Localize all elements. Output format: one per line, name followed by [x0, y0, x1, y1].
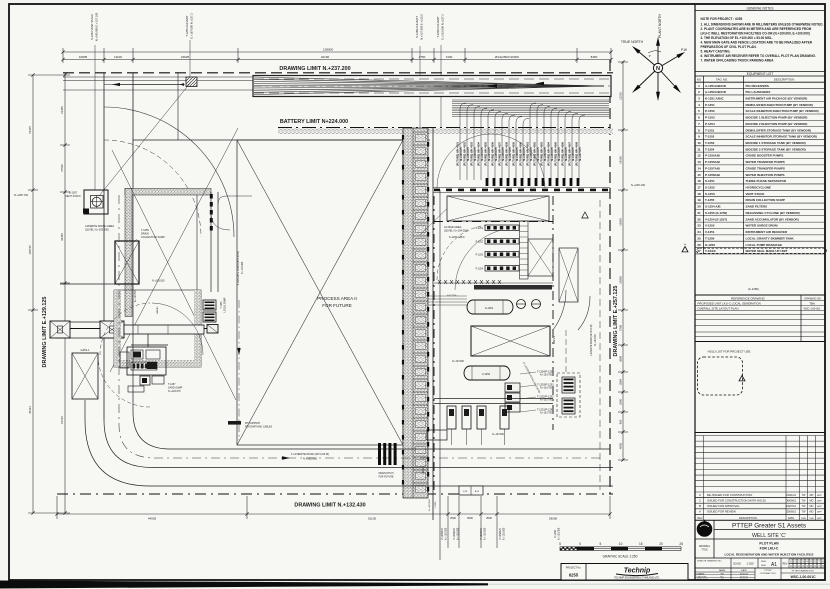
svg-text:N.+237.500 E.+215.0: N.+237.500 E.+215.0 — [420, 14, 424, 40]
svg-text:31/01/11: 31/01/11 — [740, 579, 749, 581]
svg-text:T-1259: T-1259 — [221, 301, 223, 309]
svg-text:(FUTURE) WK-4555: (FUTURE) WK-4555 — [483, 141, 487, 165]
svg-text:24: 24 — [697, 230, 701, 234]
svg-text:45113: 45113 — [28, 406, 32, 414]
svg-text:S-1253 VENT STACK: S-1253 VENT STACK — [90, 14, 94, 40]
svg-text:(LEVEL N.+103.000): (LEVEL N.+103.000) — [85, 228, 109, 232]
svg-text:PTTEP DRAWING NO.: PTTEP DRAWING NO. — [792, 570, 815, 573]
svg-text:N.+103.000: N.+103.000 — [429, 499, 431, 511]
svg-text:N.+239.975: N.+239.975 — [522, 147, 526, 161]
svg-text:P-1252: P-1252 — [705, 109, 715, 113]
svg-text:P-1251: P-1251 — [705, 103, 715, 107]
svg-text:S-1251: S-1251 — [705, 179, 715, 183]
svg-text:P-1255A/B: P-1255A/B — [705, 154, 721, 158]
svg-text:CON: CON — [463, 491, 468, 493]
svg-text:PTTEP Greater S1 Assets: PTTEP Greater S1 Assets — [732, 523, 806, 530]
svg-text:(FUTURE) WK-4551: (FUTURE) WK-4551 — [455, 141, 459, 165]
svg-text:N.+235.975: N.+235.975 — [564, 147, 568, 161]
svg-text:WATER TRANSFER PUMPS: WATER TRANSFER PUMPS — [746, 160, 785, 164]
svg-text:T-1255 CULVERT: T-1255 CULVERT — [185, 15, 189, 37]
svg-text:P-1254: P-1254 — [705, 122, 715, 126]
svg-text:COLLECTION SUMP: COLLECTION SUMP — [141, 236, 165, 239]
svg-text:BIOCIDE 1 STORAGE TANK (BY VEN: BIOCIDE 1 STORAGE TANK (BY VENDOR) — [746, 141, 806, 145]
svg-text:T-1253: T-1253 — [705, 141, 715, 145]
svg-text:13235: 13235 — [619, 92, 623, 100]
svg-text:29000: 29000 — [549, 517, 558, 521]
svg-text:17540: 17540 — [60, 164, 64, 172]
svg-text:N.+237.975: N.+237.975 — [578, 147, 582, 161]
svg-text:T-1252/P-1252: T-1252/P-1252 — [537, 396, 554, 399]
svg-text:DRN: DRN — [801, 518, 806, 520]
svg-text:N: N — [656, 66, 660, 72]
svg-text:B: B — [699, 504, 701, 508]
svg-text:21450: 21450 — [60, 106, 64, 114]
svg-text:VENT STACK: VENT STACK — [65, 195, 81, 198]
svg-text:REFERENCE DRAWING: REFERENCE DRAWING — [731, 296, 765, 300]
svg-text:APP: APP — [817, 494, 822, 497]
svg-text:128000: 128000 — [323, 48, 333, 52]
svg-text:06/09/10: 06/09/10 — [786, 499, 797, 503]
svg-text:O-1252: O-1252 — [705, 243, 715, 247]
svg-text:REV: REV — [698, 517, 703, 520]
svg-text:ISSUED FOR CONSTRUCTION (WITH: ISSUED FOR CONSTRUCTION (WITH HOLD) — [707, 499, 766, 503]
svg-text:33450: 33450 — [60, 233, 64, 241]
svg-text:N.+103.000: N.+103.000 — [152, 280, 165, 283]
svg-text:DRAWING LIMIT N.+132.430: DRAWING LIMIT N.+132.430 — [294, 503, 365, 509]
svg-text:P-1252: P-1252 — [476, 242, 484, 244]
svg-text:25/06/10: 25/06/10 — [786, 510, 797, 514]
svg-text:CONTRACT NO.: CONTRACT NO. — [760, 572, 777, 575]
svg-text:DRAWING: DRAWING — [699, 545, 710, 548]
svg-text:CRUDE BOOSTER PUMPS: CRUDE BOOSTER PUMPS — [746, 154, 784, 158]
svg-text:10: 10 — [697, 141, 701, 145]
svg-text:HOLD LIST FOR PROJECT USE: HOLD LIST FOR PROJECT USE — [708, 350, 751, 354]
svg-text:105745: 105745 — [28, 245, 32, 255]
svg-text:DRAWN: DRAWN — [697, 573, 705, 576]
svg-text:25: 25 — [679, 542, 683, 546]
svg-text:REV: REV — [783, 563, 788, 566]
svg-text:WATER SEAL MAKE UP UNIT: WATER SEAL MAKE UP UNIT — [746, 249, 788, 253]
svg-text:K-1251 A/B/C: K-1251 A/B/C — [705, 96, 725, 100]
svg-text:N.+103.795: N.+103.795 — [540, 388, 553, 390]
svg-text:5: 5 — [600, 542, 602, 546]
svg-text:N.+103.500: N.+103.500 — [503, 527, 506, 540]
svg-text:14100: 14100 — [619, 156, 623, 164]
svg-text:10000: 10000 — [619, 276, 623, 284]
svg-text:RE-ISSUED FOR CONSTRUCTION: RE-ISSUED FOR CONSTRUCTION — [707, 493, 752, 497]
svg-text:42160: 42160 — [321, 55, 330, 59]
svg-text:N.+170.000: N.+170.000 — [241, 261, 244, 274]
svg-text:DESCRIPTION: DESCRIPTION — [739, 516, 757, 520]
svg-text:S-1254 A/B: S-1254 A/B — [705, 205, 721, 209]
svg-text:20: 20 — [697, 205, 701, 209]
svg-text:20: 20 — [659, 542, 663, 546]
svg-text:TAG NO.: TAG NO. — [716, 78, 728, 82]
svg-text:6000: 6000 — [467, 516, 473, 520]
svg-text:T-1259 CULVERT: T-1259 CULVERT — [436, 16, 440, 38]
svg-text:OVERALL SITE LAYOUT PLAN: OVERALL SITE LAYOUT PLAN — [698, 307, 739, 311]
svg-text:BIOCIDE 2 INJECTION PUMP (BY V: BIOCIDE 2 INJECTION PUMP (BY VENDOR) — [746, 122, 808, 126]
svg-text:3300: 3300 — [619, 399, 623, 405]
svg-text:N.+235.975: N.+235.975 — [494, 147, 498, 161]
svg-text:9°: 9° — [649, 54, 651, 58]
svg-text:(FUTURE) WK-4563: (FUTURE) WK-4563 — [539, 141, 543, 165]
svg-text:6255: 6255 — [569, 573, 579, 578]
svg-text:P-1253: P-1253 — [705, 116, 715, 120]
svg-text:P-1254: P-1254 — [476, 269, 484, 271]
svg-text:T-1255: T-1255 — [435, 501, 437, 509]
svg-text:ISSUED FOR REVIEW: ISSUED FOR REVIEW — [707, 510, 736, 514]
svg-text:11100: 11100 — [114, 55, 122, 59]
svg-text:N.+103.795: N.+103.795 — [540, 400, 553, 402]
svg-text:V-1254 (S-1257): V-1254 (S-1257) — [705, 217, 727, 221]
svg-text:WATER INJECTION PUMPS: WATER INJECTION PUMPS — [746, 173, 785, 177]
svg-text:DEMULSIFIER INJECTION PUMP (BY: DEMULSIFIER INJECTION PUMP (BY VENDOR) — [746, 103, 813, 107]
svg-text:10: 10 — [619, 542, 623, 546]
svg-text:21: 21 — [697, 211, 701, 215]
svg-text:MO: MO — [810, 500, 814, 503]
svg-text:SCALE INHIBITOR INJECTION PUMP: SCALE INHIBITOR INJECTION PUMP (BY VENDO… — [746, 109, 819, 113]
svg-text:BIOCIDE 1 INJECTION PUMP (BY V: BIOCIDE 1 INJECTION PUMP (BY VENDOR) — [746, 116, 808, 120]
svg-text:INSTRUMENT AIR RECEIVER: INSTRUMENT AIR RECEIVER — [746, 230, 789, 234]
svg-text:LOCAL GRAVITY SKIMMER TANK: LOCAL GRAVITY SKIMMER TANK — [746, 236, 795, 240]
svg-text:P-1251: P-1251 — [476, 228, 484, 230]
svg-text:APP: APP — [817, 517, 822, 520]
svg-text:¢ LATERITE ROAD (W=4.00 M): ¢ LATERITE ROAD (W=4.00 M) — [291, 452, 329, 456]
svg-text:DRAIN COLLECTION SUMP: DRAIN COLLECTION SUMP — [746, 198, 785, 202]
svg-text:15: 15 — [639, 542, 643, 546]
svg-text:DRAWING LIMIT E.+129.125: DRAWING LIMIT E.+129.125 — [42, 297, 48, 368]
svg-text:T-1254/P-1254: T-1254/P-1254 — [537, 371, 554, 374]
svg-text:11: 11 — [697, 147, 701, 151]
svg-text:N.+233.975: N.+233.975 — [550, 147, 554, 161]
svg-text:V-1251: V-1251 — [705, 230, 715, 234]
svg-text:(FUTURE) WK-4552: (FUTURE) WK-4552 — [462, 141, 466, 165]
svg-text:19: 19 — [697, 198, 701, 202]
svg-text:A-1252A/B/C/D: A-1252A/B/C/D — [705, 90, 727, 94]
svg-text:FOR FUTURE: FOR FUTURE — [379, 476, 394, 478]
svg-text:25: 25 — [697, 236, 701, 240]
svg-text:S-1252: S-1252 — [705, 186, 715, 190]
svg-text:FOR FUTURE: FOR FUTURE — [322, 303, 352, 308]
svg-text:LATERITE ROAD (W=4.00 M): LATERITE ROAD (W=4.00 M) — [590, 324, 593, 355]
svg-text:¢ LATERITE ROAD (W=4.00 M): ¢ LATERITE ROAD (W=4.00 M) — [237, 251, 240, 285]
svg-text:SIZE: SIZE — [761, 565, 766, 567]
svg-text:PLANT NORTH: PLANT NORTH — [658, 14, 662, 38]
svg-text:(FUTURE) WK-4568: (FUTURE) WK-4568 — [574, 141, 578, 165]
svg-text:AREA?: AREA? — [156, 306, 159, 314]
svg-text:DWG: DWG — [761, 561, 767, 563]
svg-text:P-1253: P-1253 — [476, 255, 484, 257]
svg-text:SCALE INHIBITOR STORAGE TANK (: SCALE INHIBITOR STORAGE TANK (BY VENDOR) — [746, 135, 817, 139]
svg-text:K-1251 A/B/C: K-1251 A/B/C — [449, 235, 465, 239]
svg-text:67210: 67210 — [60, 416, 64, 424]
svg-text:(FUTURE) WK-4559: (FUTURE) WK-4559 — [511, 141, 515, 165]
svg-text:51105: 51105 — [368, 517, 376, 521]
svg-text:N.+103.500: N.+103.500 — [445, 527, 448, 540]
svg-text:P-1258A/B: P-1258A/B — [705, 173, 721, 177]
svg-text:APP: APP — [817, 500, 822, 503]
svg-text:S-1253: S-1253 — [705, 192, 715, 196]
svg-text:N.+103.500: N.+103.500 — [457, 527, 460, 540]
svg-text:15: 15 — [697, 173, 701, 177]
svg-text:APP: APP — [817, 511, 822, 514]
svg-text:7200: 7200 — [446, 55, 453, 59]
svg-text:N.+238.975: N.+238.975 — [515, 147, 519, 161]
svg-text:PROPOSED UNIT LKU-C LOCAL GENE: PROPOSED UNIT LKU-C LOCAL GENERATION — [698, 302, 761, 306]
svg-text:10000: 10000 — [619, 218, 623, 226]
svg-text:5: 5 — [559, 542, 561, 546]
svg-text:Technip: Technip — [624, 568, 651, 575]
svg-text:(FUTURE) WK-4566: (FUTURE) WK-4566 — [560, 141, 564, 165]
svg-text:N.+236.975: N.+236.975 — [501, 147, 505, 161]
svg-text:12: 12 — [697, 154, 701, 158]
svg-text:T-XXXX: T-XXXX — [705, 249, 716, 253]
svg-text:BATTERY LIMIT N+224.000: BATTERY LIMIT N+224.000 — [280, 119, 348, 125]
svg-text:0: 0 — [579, 542, 581, 546]
svg-text:23: 23 — [697, 224, 701, 228]
svg-text:TITLE: TITLE — [701, 549, 708, 551]
svg-text:NOTE FOR PROJECT : 6255: NOTE FOR PROJECT : 6255 — [701, 17, 743, 21]
svg-text:(FUTURE) WK-4553: (FUTURE) WK-4553 — [469, 141, 473, 165]
svg-text:DRAWING LIMIT E.+257.125: DRAWING LIMIT E.+257.125 — [613, 286, 619, 357]
svg-text:BOX: BOX — [475, 491, 480, 493]
svg-text:DATE: DATE — [788, 517, 795, 520]
svg-text:A1: A1 — [771, 562, 777, 568]
svg-text:N.+103.000: N.+103.000 — [558, 527, 561, 540]
svg-text:PLOT PLAN: PLOT PLAN — [759, 542, 779, 546]
svg-text:1. ALL DIMENSIONS SHOWN ARE IN: 1. ALL DIMENSIONS SHOWN ARE IN MILLIMETE… — [701, 22, 824, 26]
svg-text:N.+232.975: N.+232.975 — [543, 147, 547, 161]
svg-text:N.+231.975: N.+231.975 — [466, 147, 470, 161]
svg-text:A: A — [699, 510, 701, 514]
svg-text:PREPARATION OF CIVIL PLOT PLAN: PREPARATION OF CIVIL PLOT PLAN. — [701, 45, 757, 49]
svg-text:14: 14 — [697, 166, 701, 170]
svg-text:N.+230.975: N.+230.975 — [459, 147, 463, 161]
svg-text:VENDOR DRAWING NO.: VENDOR DRAWING NO. — [697, 560, 722, 563]
svg-text:N.+234.975: N.+234.975 — [487, 147, 491, 161]
svg-text:ISSUED FOR APPROVAL: ISSUED FOR APPROVAL — [707, 504, 740, 508]
svg-text:19/07/10: 19/07/10 — [786, 504, 797, 508]
svg-text:74475: 74475 — [28, 126, 32, 134]
svg-text:WATER SURGE DRUM: WATER SURGE DRUM — [746, 224, 778, 228]
svg-text:V-1252: V-1252 — [482, 372, 491, 376]
svg-text:S-1255 (S-1256): S-1255 (S-1256) — [705, 211, 727, 215]
svg-text:S-1259 CULVERT: S-1259 CULVERT — [415, 16, 419, 38]
svg-text:31/01/11: 31/01/11 — [786, 493, 796, 497]
svg-text:FOR EARTHING CABLES: FOR EARTHING CABLES — [245, 425, 272, 428]
svg-text:7. WATER OFFLOADING TRUCK PARK: 7. WATER OFFLOADING TRUCK PARKING AREA — [701, 59, 775, 63]
svg-text:22: 22 — [697, 217, 701, 221]
svg-text:(FUTURE) WK-4564: (FUTURE) WK-4564 — [546, 141, 550, 165]
svg-text:N.+234.975: N.+234.975 — [557, 147, 561, 161]
svg-text:2500: 2500 — [450, 516, 456, 520]
svg-text:N.+237.975: N.+237.975 — [508, 147, 512, 161]
svg-text:GATE 1: GATE 1 — [80, 348, 90, 352]
svg-text:GATE ?: GATE ? — [422, 465, 425, 474]
svg-text:N.+164.000: N.+164.000 — [595, 333, 597, 346]
svg-text:44055: 44055 — [148, 517, 157, 521]
svg-text:N.+245.900 E.+137.100: N.+245.900 E.+137.100 — [95, 12, 99, 41]
svg-text:(FUTURE) WK-4554: (FUTURE) WK-4554 — [476, 141, 480, 165]
svg-text:P-1257A/B: P-1257A/B — [705, 166, 721, 170]
svg-text:5. HEAVY CASTING.: 5. HEAVY CASTING. — [701, 50, 731, 54]
svg-text:T-1254: T-1254 — [705, 147, 715, 151]
svg-text:13: 13 — [697, 160, 701, 164]
svg-text:MO: MO — [810, 511, 814, 514]
svg-text:LOCAL PUMP DRAINAGE: LOCAL PUMP DRAINAGE — [746, 243, 783, 247]
svg-text:T-1253/P-1253: T-1253/P-1253 — [537, 384, 554, 387]
svg-text:PROJECT No.: PROJECT No. — [566, 567, 582, 570]
svg-text:MO: MO — [810, 505, 814, 508]
svg-text:S-1251: S-1251 — [485, 306, 494, 310]
svg-text:T-1251: T-1251 — [705, 128, 715, 132]
svg-text:PIG RECEIVERS: PIG RECEIVERS — [746, 84, 769, 88]
svg-text:2. PLANT COORDINATES ARE IN ME: 2. PLANT COORDINATES ARE IN METERS AND A… — [701, 27, 812, 31]
svg-text:3. THE ELEVATION OF EL.+100.00: 3. THE ELEVATION OF EL.+100.000 = 53.00 … — [701, 36, 773, 40]
svg-text:FOR LKU-C: FOR LKU-C — [760, 547, 779, 551]
svg-text:WELL SITE 'C': WELL SITE 'C' — [752, 533, 786, 539]
svg-text:T-1251/P-1251: T-1251/P-1251 — [537, 409, 554, 412]
svg-text:2864: 2864 — [619, 379, 623, 385]
svg-text:(FUTURE) WK-4556: (FUTURE) WK-4556 — [490, 141, 494, 165]
svg-text:DEMULSIFIER STORAGE TANK (BY V: DEMULSIFIER STORAGE TANK (BY VENDOR) — [746, 128, 812, 132]
svg-text:T-1255: T-1255 — [705, 198, 715, 202]
svg-text:LATERITE FINISH AREA: LATERITE FINISH AREA — [85, 224, 114, 228]
svg-text:10835: 10835 — [79, 55, 88, 59]
svg-text:THREE PHASE SEPARATOR: THREE PHASE SEPARATOR — [746, 179, 787, 183]
svg-text:SCALE: SCALE — [733, 563, 741, 566]
svg-text:24925: 24925 — [181, 55, 190, 59]
svg-text:26: 26 — [697, 243, 701, 247]
svg-text:LKU-C WELL RESTORATION FACILIT: LKU-C WELL RESTORATION FACILITIES CO-OR … — [701, 31, 810, 35]
svg-text:N.+103.500: N.+103.500 — [452, 361, 465, 363]
svg-text:3500: 3500 — [486, 516, 492, 520]
svg-text:4750: 4750 — [419, 55, 426, 59]
svg-text:N.+209.100: N.+209.100 — [631, 183, 645, 187]
svg-text:(FUTURE) WK-4557: (FUTURE) WK-4557 — [497, 141, 501, 165]
svg-text:N.+233.975: N.+233.975 — [480, 147, 484, 161]
svg-text:SAND ACCUMULATOR (BY VENDOR): SAND ACCUMULATOR (BY VENDOR) — [746, 217, 799, 221]
svg-text:N.+230.975: N.+230.975 — [529, 147, 533, 161]
svg-text:HYDROCYCLONE: HYDROCYCLONE — [746, 186, 772, 190]
svg-text:(LEVEL N.+104.000): (LEVEL N.+104.000) — [444, 229, 468, 233]
svg-text:N.+205.740: N.+205.740 — [14, 193, 28, 197]
svg-text:450: 450 — [619, 419, 623, 424]
svg-text:4. NEW MAIN GATE AND FENCE LOC: 4. NEW MAIN GATE AND FENCE LOCATION ARE … — [701, 40, 813, 44]
svg-text:P-1256A/B: P-1256A/B — [705, 160, 721, 164]
svg-text:C: C — [699, 499, 701, 503]
svg-text:NO: NO — [697, 78, 702, 82]
svg-text:MO: MO — [810, 494, 814, 497]
svg-text:WSC-1-00-001C: WSC-1-00-001C — [790, 575, 816, 579]
svg-text:CRUDE TRANSFER PUMPS: CRUDE TRANSFER PUMPS — [746, 166, 785, 170]
svg-text:BIOCIDE 2 STORAGE TANK (BY VEN: BIOCIDE 2 STORAGE TANK (BY VENDOR) — [746, 147, 806, 151]
svg-text:N.+232.975: N.+232.975 — [473, 147, 477, 161]
svg-text:TECHNIP ENGINEERING (THAILAND): TECHNIP ENGINEERING (THAILAND) LTD. — [614, 577, 660, 580]
svg-text:8450: 8450 — [591, 55, 598, 59]
svg-text:TRUE NORTH: TRUE NORTH — [621, 40, 644, 44]
svg-text:18: 18 — [697, 192, 701, 196]
svg-text:N.+236.975: N.+236.975 — [571, 147, 575, 161]
svg-text:PIG LAUNCHERS: PIG LAUNCHERS — [746, 90, 771, 94]
svg-text:INSTRUMENT AIR PACKAGE (BY VEN: INSTRUMENT AIR PACKAGE (BY VENDOR) — [746, 96, 808, 100]
svg-text:1:250: 1:250 — [747, 562, 754, 566]
svg-text:16: 16 — [697, 179, 701, 183]
svg-text:4005: 4005 — [619, 443, 623, 449]
svg-text:Ø14x2500=20000: Ø14x2500=20000 — [495, 55, 519, 59]
svg-text:6. INSTRUMENT AIR RECEIVER REF: 6. INSTRUMENT AIR RECEIVER REFER TO OVER… — [701, 54, 816, 58]
svg-text:(FUTURE) WK-4565: (FUTURE) WK-4565 — [553, 141, 557, 165]
svg-text:E.+215.000 N.+237.2: E.+215.000 N.+237.2 — [441, 14, 445, 40]
svg-text:GATE 2: GATE 2 — [553, 335, 556, 344]
svg-text:N.+103.795: N.+103.795 — [540, 375, 553, 377]
svg-text:DRAIN DITCH: DRAIN DITCH — [379, 472, 394, 475]
svg-text:N.+103.500: N.+103.500 — [492, 434, 505, 436]
svg-text:APPROVED: APPROVED — [697, 578, 709, 581]
svg-text:AC BAR AREA: AC BAR AREA — [444, 225, 462, 229]
svg-text:E.+187.000 N.+237.2: E.+187.000 N.+237.2 — [190, 13, 194, 39]
svg-text:27: 27 — [697, 249, 701, 253]
svg-text:APP: APP — [817, 505, 822, 508]
svg-text:CHK: CHK — [809, 518, 814, 520]
svg-text:3700: 3700 — [619, 325, 623, 331]
svg-text:PIT SUPPORT: PIT SUPPORT — [245, 423, 261, 425]
svg-text:N.+103.500: N.+103.500 — [484, 527, 487, 540]
svg-text:(FUTURE) WK-4561: (FUTURE) WK-4561 — [525, 141, 529, 165]
svg-text:T-1252: T-1252 — [705, 135, 715, 139]
svg-text:PROCESS AREA II: PROCESS AREA II — [317, 296, 357, 301]
svg-text:GENERAL NOTES: GENERAL NOTES — [747, 6, 774, 10]
svg-text:(A-1280): (A-1280) — [748, 287, 759, 291]
svg-text:DRAWING NO.: DRAWING NO. — [804, 297, 821, 300]
svg-text:(FUTURE) WK-4560: (FUTURE) WK-4560 — [518, 141, 522, 165]
svg-text:V-1252: V-1252 — [705, 224, 715, 228]
svg-text:VENT STACK: VENT STACK — [746, 192, 766, 196]
svg-text:DESCRIPTION: DESCRIPTION — [774, 78, 795, 82]
svg-text:DEGASSING CYCLONE (BY VENDOR): DEGASSING CYCLONE (BY VENDOR) — [746, 211, 800, 215]
svg-text:(FUTURE) WK-4558: (FUTURE) WK-4558 — [504, 141, 508, 165]
svg-text:SAND FILTERS: SAND FILTERS — [746, 205, 768, 209]
svg-text:WSC-1-00-001: WSC-1-00-001 — [804, 308, 821, 311]
svg-text:AM: AM — [720, 578, 723, 581]
svg-text:GRAPHIC SCALE 1:250: GRAPHIC SCALE 1:250 — [603, 555, 638, 559]
svg-text:3800: 3800 — [619, 356, 623, 362]
svg-text:LOCAL SUMP: LOCAL SUMP — [224, 297, 227, 312]
svg-text:N.+103.075: N.+103.075 — [168, 390, 181, 393]
svg-text:A-1251A/B/C/D: A-1251A/B/C/D — [705, 84, 727, 88]
svg-text:P.W: P.W — [681, 48, 688, 52]
svg-text:EQUIPMENT LIST: EQUIPMENT LIST — [747, 72, 774, 76]
svg-text:T-1256: T-1256 — [705, 236, 715, 240]
svg-text:E.+103.500: E.+103.500 — [135, 289, 137, 302]
svg-text:(FUTURE) WK-4567: (FUTURE) WK-4567 — [567, 141, 571, 165]
svg-text:DRAWING LIMIT N.+237.200: DRAWING LIMIT N.+237.200 — [279, 66, 350, 72]
svg-text:LOCAL REGENERATION AND WATER I: LOCAL REGENERATION AND WATER INJECTION F… — [725, 553, 814, 557]
svg-text:PTTEP: PTTEP — [764, 570, 772, 572]
svg-text:N.+103.795: N.+103.795 — [540, 413, 553, 415]
svg-text:17: 17 — [697, 186, 701, 190]
svg-text:N.+152.000: N.+152.000 — [303, 457, 317, 461]
svg-text:TBA: TBA — [809, 302, 815, 306]
